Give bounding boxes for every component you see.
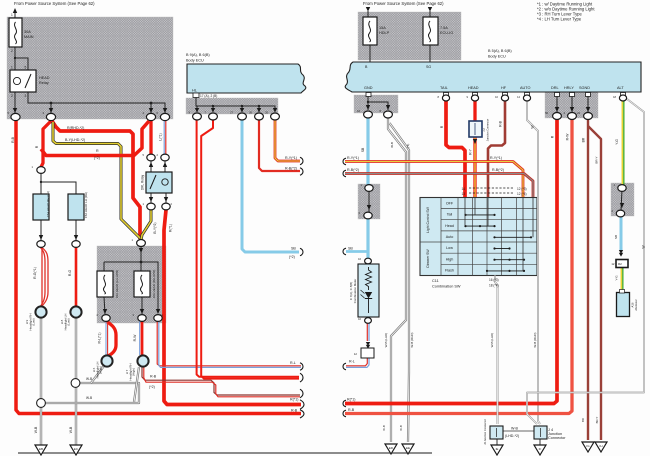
- svg-text:TAIL: TAIL: [440, 86, 448, 90]
- svg-text:HF: HF: [501, 86, 507, 90]
- svg-text:BR: BR: [581, 418, 585, 422]
- svg-text:Body ECU: Body ECU: [186, 59, 204, 63]
- svg-text:(High): (High): [132, 368, 136, 376]
- svg-text:J 2: J 2: [482, 128, 486, 132]
- svg-text:Head: Head: [445, 224, 454, 228]
- svg-text:17 (A), 2 (B): 17 (A), 2 (B): [200, 94, 217, 98]
- svg-text:DRL Relay: DRL Relay: [141, 174, 145, 190]
- svg-text:10A HEAD (LH-UPR): 10A HEAD (LH-UPR): [115, 270, 119, 298]
- svg-text:BR: BR: [582, 137, 586, 142]
- svg-text:12: 12: [354, 352, 358, 356]
- svg-text:W-B (RHD): W-B (RHD): [410, 332, 414, 347]
- svg-text:L(*1): L(*1): [159, 133, 163, 140]
- svg-text:(LHD-*2): (LHD-*2): [505, 434, 519, 438]
- svg-text:(*2): (*2): [289, 255, 295, 259]
- svg-text:R: R: [96, 149, 99, 153]
- svg-text:16 (*3): 16 (*3): [489, 278, 499, 282]
- svg-text:R-Y(*1): R-Y(*1): [490, 156, 502, 160]
- svg-text:GND: GND: [364, 86, 373, 90]
- svg-text:SB: SB: [614, 235, 618, 239]
- svg-text:HEAD: HEAD: [39, 76, 50, 80]
- svg-text:W-B: W-B: [382, 425, 386, 431]
- svg-text:R-Y(*1): R-Y(*1): [285, 156, 297, 160]
- svg-text:W-B: W-B: [399, 425, 403, 431]
- svg-text:R-G(*1): R-G(*1): [33, 267, 37, 279]
- svg-text:SGND: SGND: [579, 86, 590, 90]
- svg-text:(*2): (*2): [94, 156, 100, 160]
- svg-text:R-Y(*1): R-Y(*1): [347, 156, 359, 160]
- svg-text:R-B: R-B: [348, 408, 355, 412]
- svg-text:R(RHD-*2): R(RHD-*2): [67, 126, 84, 130]
- svg-text:Flash: Flash: [445, 269, 454, 273]
- svg-text:IH: IH: [600, 444, 603, 448]
- svg-text:13: 13: [461, 192, 465, 196]
- svg-text:Combination SW: Combination SW: [432, 285, 461, 289]
- svg-text:W-B: W-B: [86, 377, 92, 381]
- svg-text:EB: EB: [39, 447, 43, 451]
- svg-text:Body ECU: Body ECU: [488, 55, 506, 59]
- svg-text:SB: SB: [361, 147, 365, 152]
- svg-text:R-L(*1): R-L(*1): [98, 333, 102, 344]
- svg-text:R2: R2: [618, 262, 622, 266]
- svg-text:J4 Junction Connector: J4 Junction Connector: [483, 419, 487, 445]
- svg-text:SG: SG: [426, 65, 431, 69]
- svg-text:AUTO: AUTO: [520, 86, 531, 90]
- svg-text:R-G: R-G: [68, 270, 72, 277]
- svg-text:(*2): (*2): [149, 385, 155, 389]
- svg-text:Y-G: Y-G: [615, 275, 619, 281]
- svg-text:3: 3: [25, 94, 27, 98]
- svg-text:B-Y(LHD-*2): B-Y(LHD-*2): [65, 138, 85, 142]
- svg-text:Junction Connector: Junction Connector: [486, 119, 490, 141]
- svg-text:IE: IE: [496, 447, 499, 451]
- svg-text:R(*1): R(*1): [347, 398, 355, 402]
- svg-text:ECU-IG: ECU-IG: [440, 31, 453, 35]
- svg-text:*4 : LH Turn Lever Type: *4 : LH Turn Lever Type: [537, 17, 582, 22]
- svg-text:W-B (LHD): W-B (LHD): [384, 333, 388, 348]
- svg-text:1: 1: [11, 13, 13, 17]
- svg-text:Dimmer SW: Dimmer SW: [426, 249, 430, 268]
- svg-text:W-B: W-B: [34, 426, 38, 433]
- svg-text:Relay: Relay: [39, 81, 49, 85]
- svg-text:IF: IF: [539, 447, 542, 451]
- svg-text:R-W: R-W: [133, 334, 137, 342]
- svg-text:12 (*4): 12 (*4): [517, 192, 527, 196]
- svg-text:18 (*4): 18 (*4): [489, 284, 499, 288]
- svg-text:B-Y(*2): B-Y(*2): [153, 222, 157, 233]
- svg-text:R-B(*2): R-B(*2): [347, 168, 359, 172]
- svg-text:15A HEAD RH (LH): 15A HEAD RH (LH): [46, 191, 50, 217]
- svg-text:R-L: R-L: [349, 360, 355, 364]
- svg-text:From Power Source System (See: From Power Source System (See Page 62): [14, 1, 95, 6]
- svg-text:10A HEAD (RH-UPR): 10A HEAD (RH-UPR): [152, 270, 156, 299]
- svg-text:15A HEAD LH (RH): 15A HEAD LH (RH): [84, 192, 88, 218]
- svg-text:(Low): (Low): [32, 318, 36, 325]
- svg-text:EE: EE: [406, 446, 410, 450]
- svg-text:R-B: R-B: [499, 120, 503, 127]
- svg-text:R-B(*2): R-B(*2): [492, 168, 504, 172]
- svg-text:R-W: R-W: [566, 133, 570, 141]
- svg-text:12: 12: [611, 262, 615, 266]
- svg-text:(*4): (*4): [406, 144, 410, 149]
- svg-text:High: High: [446, 257, 454, 261]
- svg-text:SB: SB: [291, 247, 296, 251]
- svg-text:R-B: R-B: [11, 136, 15, 143]
- svg-text:B 5(A), B 6(B): B 5(A), B 6(B): [488, 49, 512, 53]
- svg-text:R-Y: R-Y: [469, 148, 473, 155]
- svg-text:SB: SB: [348, 247, 353, 251]
- svg-text:Auto: Auto: [446, 235, 454, 239]
- svg-text:(Low): (Low): [67, 318, 71, 325]
- svg-text:BR-Y: BR-Y: [595, 156, 599, 163]
- svg-text:15A: 15A: [379, 26, 386, 30]
- svg-text:A16: A16: [631, 302, 635, 307]
- svg-text:DRL: DRL: [551, 86, 559, 90]
- svg-text:R-B: R-B: [291, 409, 298, 413]
- svg-text:R(*1): R(*1): [169, 224, 173, 232]
- svg-text:HDLP: HDLP: [379, 31, 390, 35]
- svg-text:2: 2: [11, 94, 13, 98]
- svg-text:B 9(A), B 6(B): B 9(A), B 6(B): [186, 53, 210, 57]
- svg-text:MAIN: MAIN: [24, 35, 34, 39]
- svg-text:R-L: R-L: [290, 361, 296, 365]
- svg-text:(High): (High): [99, 366, 103, 374]
- svg-text:Low: Low: [446, 246, 453, 250]
- svg-text:7.5A: 7.5A: [440, 26, 448, 30]
- svg-text:12 (*3): 12 (*3): [517, 187, 527, 191]
- svg-text:R-B: R-B: [150, 375, 157, 379]
- svg-text:Light Control SW: Light Control SW: [426, 206, 430, 232]
- svg-text:5: 5: [25, 66, 27, 70]
- svg-text:R(*1): R(*1): [290, 398, 298, 402]
- svg-text:Connector: Connector: [548, 436, 566, 440]
- svg-text:Tail: Tail: [447, 213, 453, 217]
- svg-text:30A: 30A: [24, 30, 31, 34]
- svg-text:From Power Source System (See: From Power Source System (See Page 62): [363, 1, 444, 6]
- svg-text:Y-G: Y-G: [615, 139, 619, 145]
- svg-text:HRLY: HRLY: [564, 86, 574, 90]
- svg-text:W-B: W-B: [511, 427, 519, 431]
- svg-text:2: 2: [11, 49, 13, 53]
- svg-text:W-B: W-B: [69, 426, 73, 433]
- svg-text:OFF: OFF: [446, 202, 454, 206]
- svg-text:Combination Meter: Combination Meter: [353, 279, 357, 303]
- svg-text:W-B (RHD): W-B (RHD): [533, 332, 537, 347]
- svg-text:Alternator: Alternator: [634, 299, 638, 310]
- svg-text:R-B(*2): R-B(*2): [285, 167, 297, 171]
- svg-text:14: 14: [461, 187, 465, 191]
- svg-text:1: 1: [11, 66, 13, 70]
- svg-text:W-B: W-B: [86, 396, 92, 400]
- svg-text:HL: HL: [192, 89, 197, 93]
- svg-text:BR-Y: BR-Y: [595, 417, 599, 424]
- svg-text:W-B (LHD): W-B (LHD): [490, 333, 494, 348]
- svg-text:W-B: W-B: [390, 142, 394, 148]
- svg-text:C11: C11: [432, 279, 439, 283]
- svg-text:ALT: ALT: [617, 86, 624, 90]
- svg-text:HEAD: HEAD: [468, 86, 479, 90]
